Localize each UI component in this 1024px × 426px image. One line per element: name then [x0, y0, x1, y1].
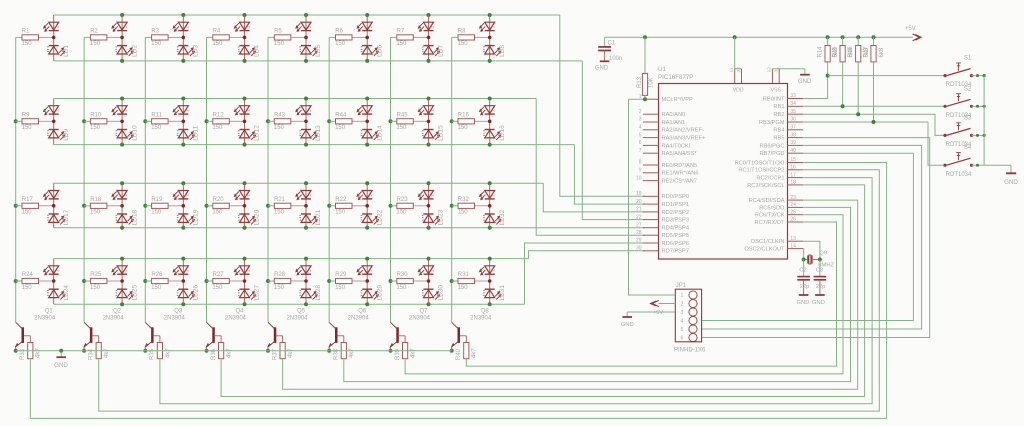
resistor R31	[452, 278, 490, 283]
label Q3	[174, 308, 183, 314]
junction switch pin	[976, 74, 979, 77]
label pin number 35	[790, 109, 796, 115]
svg-text:17: 17	[790, 172, 796, 178]
svg-text:4k7: 4k7	[36, 348, 42, 358]
wire +5V rail	[605, 36, 913, 38]
label R39 value 4k7	[411, 348, 417, 358]
label LD28	[315, 285, 322, 301]
wire r3b to RD4	[643, 227, 645, 229]
label S3	[964, 115, 972, 121]
svg-text:2: 2	[308, 26, 312, 28]
junction	[304, 143, 308, 147]
label R38 value 4k7	[349, 348, 355, 358]
label R32 value 150	[458, 210, 469, 216]
LED LD5	[296, 15, 318, 61]
label LD17	[63, 209, 70, 225]
svg-text:LD29: LD29	[376, 285, 383, 301]
label pin number 28	[636, 230, 642, 236]
label R30 name	[397, 272, 409, 278]
wire base R34 to RC1	[99, 170, 880, 411]
label S2	[964, 86, 972, 92]
svg-text:LD9: LD9	[63, 128, 70, 140]
svg-text:4k7: 4k7	[104, 348, 110, 358]
junction	[389, 119, 393, 123]
svg-text:GND: GND	[595, 65, 609, 71]
label R18 name	[90, 197, 102, 203]
svg-text:RB4: RB4	[773, 128, 784, 134]
label pin name RD5/PSP5	[662, 233, 690, 239]
label pin 32	[736, 67, 742, 73]
wire column 8 line	[451, 37, 453, 322]
pin 15 RC0/T1OSO/T1CKI	[788, 162, 804, 164]
resistor R35	[157, 343, 162, 359]
wire base R40 to RC7	[466, 222, 836, 366]
label pin name RC4/SDI/SDA	[749, 198, 785, 204]
label R9 name	[22, 112, 30, 118]
label pin name RD0/PSP0	[662, 194, 690, 200]
svg-text:2: 2	[431, 26, 435, 28]
pin 10 RE2/CS*/AN7	[643, 180, 659, 182]
junction	[181, 97, 185, 101]
label LD19	[193, 209, 200, 225]
label R23 name	[397, 197, 409, 203]
crystal Q9	[804, 255, 820, 264]
label pin number 33	[790, 93, 796, 99]
label JP1 value PINHD-1X6	[674, 347, 706, 353]
LED LD10	[112, 99, 134, 145]
label R10 value 150	[90, 125, 101, 131]
junction	[365, 181, 369, 185]
label pin name RE0/RD*/AN5	[662, 163, 698, 169]
wire base R36 to RC3	[221, 185, 865, 397]
label Q7	[419, 308, 428, 314]
wire JP1-2 to +5V	[658, 303, 675, 305]
LED LD20	[234, 183, 256, 227]
label Q6 value 2N3904	[348, 315, 370, 321]
svg-text:2: 2	[431, 270, 435, 272]
junction emitter	[266, 349, 270, 353]
label pin number 3	[639, 117, 642, 123]
wire C1 to rail	[604, 37, 606, 46]
label LD29	[376, 285, 383, 301]
pin 17 RC2/CCP1	[788, 177, 804, 179]
label C3	[816, 267, 823, 273]
resistor R5	[268, 35, 306, 40]
svg-text:1: 1	[639, 94, 642, 100]
svg-text:LD6: LD6	[376, 45, 383, 57]
resistor R23	[391, 203, 429, 208]
label R5 value 150	[274, 41, 285, 47]
label R22 name	[335, 197, 347, 203]
svg-text:9: 9	[639, 168, 642, 174]
label LD9	[63, 128, 70, 140]
svg-text:RD0/PSP0: RD0/PSP0	[662, 194, 690, 200]
label LD23	[438, 209, 445, 225]
junction	[427, 226, 431, 230]
junction crystal left	[802, 258, 806, 262]
pin 36 RB3/PGM	[788, 121, 804, 123]
svg-text:2N3904: 2N3904	[34, 315, 56, 321]
svg-text:6: 6	[639, 140, 642, 146]
switch S2 RDT1034	[943, 94, 984, 108]
label LD3	[193, 45, 200, 57]
resistor R21	[268, 203, 306, 208]
label LD13	[315, 125, 322, 141]
resistor R36	[219, 343, 224, 359]
svg-text:2N3904: 2N3904	[286, 315, 308, 321]
LED LD19	[173, 183, 195, 227]
label JP1 pin 6	[681, 336, 684, 342]
wire row4 bottom rail	[54, 303, 525, 305]
pin 23 RC4/SDI/SDA	[788, 199, 804, 201]
label R8 name	[458, 29, 466, 35]
transistor Q3 2N3904	[145, 322, 160, 350]
svg-text:GND: GND	[54, 362, 68, 369]
wire JP1-1 to MCLR	[629, 99, 676, 295]
label R2 value 150	[90, 41, 101, 47]
resistor R33	[28, 343, 33, 359]
junction	[427, 181, 431, 185]
label pin name RD3/PSP3	[662, 218, 690, 224]
wire to S4	[928, 122, 944, 165]
resistor R29	[329, 278, 367, 283]
svg-text:R10: R10	[90, 112, 102, 118]
svg-text:R4: R4	[213, 29, 221, 35]
junction	[327, 204, 331, 208]
svg-text:R13: R13	[637, 76, 643, 88]
junction GND rail	[59, 349, 63, 353]
label R45 name	[397, 112, 409, 118]
label pin number 1	[639, 94, 642, 100]
label pin name RA5/AN4/SS*	[662, 151, 698, 157]
svg-text:RB6/PGC: RB6/PGC	[760, 143, 785, 149]
resistor R28	[268, 278, 306, 283]
svg-text:GND: GND	[797, 300, 810, 306]
pin 16 RC1/T1OSI/CCP2	[788, 169, 804, 171]
label pin number 40	[790, 148, 796, 154]
op-amp U1 PIC16F877P body	[659, 84, 788, 260]
svg-text:4k7: 4k7	[411, 348, 417, 358]
resistor R34	[96, 343, 101, 359]
resistor R45	[391, 119, 429, 124]
junction emitter	[143, 349, 147, 353]
label pin number 21	[636, 207, 642, 213]
resistor R6	[329, 35, 367, 40]
svg-text:RD7/PSP7: RD7/PSP7	[662, 249, 690, 255]
svg-text:31: 31	[774, 67, 780, 73]
junction	[427, 97, 431, 101]
LED LD32	[479, 183, 501, 227]
svg-text:150: 150	[90, 125, 101, 131]
wire VSS to GND	[772, 69, 805, 75]
capacitor C1	[598, 47, 611, 61]
resistor R13	[642, 37, 647, 99]
label pin number 36	[790, 117, 796, 123]
svg-text:R33: R33	[20, 348, 26, 360]
LED LD21	[296, 183, 318, 227]
LED LD31	[479, 259, 501, 305]
svg-text:R8: R8	[458, 29, 466, 35]
svg-text:40: 40	[790, 148, 796, 154]
label pin name RB7/PGD	[760, 151, 785, 157]
svg-text:R22: R22	[335, 197, 347, 203]
svg-text:LD31: LD31	[499, 285, 506, 301]
label R36 name	[211, 348, 217, 360]
pin 13 OSC1/CLKIN	[788, 240, 804, 242]
svg-text:150: 150	[212, 210, 223, 216]
resistor R1	[16, 35, 54, 40]
resistor R43	[268, 119, 306, 124]
transistor Q5 2N3904	[267, 322, 282, 350]
junction crystal right	[818, 258, 822, 262]
svg-text:LD13: LD13	[315, 125, 322, 141]
svg-text:2: 2	[56, 194, 60, 196]
label pin number 18	[790, 180, 796, 186]
resistor R32	[452, 203, 490, 208]
svg-text:150: 150	[212, 41, 223, 47]
svg-text:150: 150	[335, 41, 346, 47]
label pin number 24	[790, 202, 796, 208]
junction	[181, 143, 185, 147]
svg-text:2: 2	[124, 109, 128, 111]
svg-text:LD27: LD27	[254, 285, 261, 301]
junction emitter	[327, 349, 331, 353]
label S4	[964, 145, 972, 151]
label pin name RB5	[773, 136, 784, 142]
svg-text:R7: R7	[397, 29, 405, 35]
label LD10	[131, 125, 138, 141]
svg-text:R25: R25	[90, 272, 102, 278]
svg-text:2N3904: 2N3904	[225, 315, 247, 321]
svg-text:2: 2	[492, 194, 496, 196]
label LD20	[254, 209, 261, 225]
wire JP1-3 to GND	[627, 312, 675, 317]
label pin name RE2/CS*/AN7	[662, 179, 697, 185]
label Q8	[481, 308, 490, 314]
label LD14	[376, 125, 383, 141]
resistor R24	[16, 278, 54, 283]
label S3 value RDT1034	[946, 142, 972, 148]
svg-text:R28: R28	[274, 272, 286, 278]
svg-text:35: 35	[790, 109, 796, 115]
LED LD2	[112, 15, 134, 61]
label +5V	[905, 26, 916, 32]
junction	[427, 143, 431, 147]
LED LD26	[173, 259, 195, 305]
pin 27 RD4/PSP4	[643, 227, 659, 229]
svg-text:RB5: RB5	[773, 136, 784, 142]
label pin number 30	[636, 246, 642, 252]
label pin name RB2	[773, 112, 784, 118]
svg-text:150: 150	[212, 285, 223, 291]
label JP1	[676, 283, 687, 289]
svg-text:24: 24	[790, 202, 796, 208]
junction	[14, 279, 18, 283]
label R32 name	[458, 197, 470, 203]
label R22 value 150	[335, 210, 346, 216]
svg-text:R11: R11	[151, 112, 162, 118]
pin 18 RC3/SCK/SCL	[788, 184, 804, 186]
svg-text:R18: R18	[90, 197, 102, 203]
svg-text:13: 13	[790, 236, 796, 242]
svg-text:LD1: LD1	[63, 45, 70, 57]
svg-text:150: 150	[396, 125, 407, 131]
svg-text:34: 34	[790, 101, 796, 107]
svg-text:2: 2	[308, 110, 312, 112]
svg-text:R32: R32	[458, 197, 470, 203]
svg-text:2N3904: 2N3904	[164, 315, 186, 321]
label pin number 34	[790, 101, 796, 107]
LED LD7	[418, 15, 440, 61]
junction	[427, 13, 431, 17]
svg-text:S3: S3	[964, 115, 972, 121]
pin 20 RD1/PSP1	[643, 203, 659, 205]
label pin 12	[767, 67, 773, 73]
label R43 name	[274, 112, 286, 118]
svg-text:2: 2	[247, 270, 251, 272]
label LD22	[376, 209, 383, 225]
svg-text:LD26: LD26	[193, 285, 200, 301]
junction switch pin	[976, 164, 979, 167]
resistor R22	[329, 203, 367, 208]
svg-text:LD19: LD19	[193, 209, 200, 225]
svg-text:150: 150	[396, 41, 407, 47]
svg-text:3: 3	[639, 117, 642, 123]
junction	[488, 97, 492, 101]
wire column 3 line	[144, 37, 146, 322]
resistor R27	[207, 278, 245, 283]
svg-text:RC1/T1OSI/CCP2: RC1/T1OSI/CCP2	[738, 168, 784, 174]
resistor R4	[207, 35, 245, 40]
svg-text:R26: R26	[151, 272, 163, 278]
junction	[365, 257, 369, 261]
svg-text:RE1/WR*/AN6: RE1/WR*/AN6	[662, 171, 699, 177]
label pin name MCLR*/VPP	[662, 97, 693, 103]
label LD25	[131, 285, 138, 301]
label R27 value 150	[212, 285, 223, 291]
svg-text:2: 2	[247, 110, 251, 112]
label pin number 37	[790, 125, 796, 131]
svg-text:RC2/CCP1: RC2/CCP1	[756, 176, 784, 182]
junction	[488, 143, 492, 147]
resistor R11	[145, 119, 183, 124]
svg-text:30: 30	[636, 246, 642, 252]
junction	[266, 204, 270, 208]
label R24 name	[22, 272, 34, 278]
svg-text:38: 38	[790, 132, 796, 138]
label C2 value 22p	[800, 284, 810, 290]
svg-text:2N3904: 2N3904	[103, 315, 125, 321]
wire RB3 net	[803, 62, 928, 122]
label pin name OSC1/CLKIN	[751, 239, 785, 245]
LED LD14	[357, 99, 379, 145]
svg-text:150: 150	[458, 285, 469, 291]
junction	[488, 302, 492, 306]
label pin 11	[729, 67, 735, 72]
wire r2t to RD5	[536, 99, 645, 236]
junction	[327, 119, 331, 123]
junction R13 at rail	[643, 35, 647, 39]
wire base R38 to RC5	[344, 207, 851, 381]
label pin name RD1/PSP1	[662, 202, 690, 208]
junction	[120, 226, 124, 230]
LED LD9	[43, 99, 65, 145]
svg-text:Q8: Q8	[481, 308, 490, 314]
label LD27	[254, 285, 261, 301]
svg-text:4k7: 4k7	[349, 348, 355, 358]
svg-text:2: 2	[247, 194, 251, 196]
LED LD16	[479, 99, 501, 145]
ground GND at JP1	[621, 317, 634, 328]
svg-text:2: 2	[185, 194, 189, 196]
junction	[243, 181, 247, 185]
junction R15 at rail	[841, 35, 845, 39]
junction RB3/R17	[872, 120, 876, 124]
svg-text:2: 2	[369, 26, 373, 28]
svg-text:2: 2	[185, 110, 189, 112]
svg-text:Q5: Q5	[297, 308, 306, 314]
junction	[450, 119, 454, 123]
junction	[120, 59, 124, 63]
junction VDD at rail	[733, 35, 737, 39]
svg-text:R44: R44	[335, 112, 347, 118]
label pin number 19	[636, 191, 642, 197]
LED LD22	[357, 183, 379, 227]
junction	[365, 97, 369, 101]
label Q7 value 2N3904	[409, 315, 431, 321]
svg-text:2: 2	[492, 110, 496, 112]
wire RB7/PGD to JP1-4	[702, 153, 914, 320]
pin 21 RD2/PSP2	[643, 211, 659, 213]
svg-text:2: 2	[681, 302, 684, 308]
wire base R39 to RC6	[405, 215, 843, 374]
label R19 value 150	[151, 210, 162, 216]
label pin name RA2/AN2/VREF-	[662, 128, 704, 134]
label Q9 value 4MHZ	[818, 262, 834, 268]
LED LD13	[296, 99, 318, 145]
svg-text:R16: R16	[458, 112, 470, 118]
label R18 value 150	[90, 210, 101, 216]
ground GND at C2	[797, 295, 810, 306]
ground GND at emitter rail	[54, 351, 68, 369]
svg-text:25: 25	[790, 209, 796, 215]
label R37 name	[272, 348, 278, 360]
junction	[243, 302, 247, 306]
resistor R16	[452, 119, 490, 124]
pin 14 OSC2/CLKOUT	[788, 248, 804, 250]
label R31 value 150	[458, 285, 469, 291]
label pin number 7	[639, 148, 642, 154]
label pin name RD4/PSP4	[662, 226, 690, 232]
label R17 value 6k8	[879, 47, 885, 57]
svg-text:GND: GND	[1004, 179, 1018, 186]
label R11 value 150	[151, 125, 162, 131]
label JP1 pin 1	[681, 293, 684, 299]
junction RB2/R16	[856, 112, 860, 116]
svg-text:R40: R40	[456, 348, 462, 360]
resistor R10	[84, 119, 122, 124]
svg-text:RC5/SDO: RC5/SDO	[759, 205, 785, 211]
junction	[304, 59, 308, 63]
label +5V at JP1	[653, 310, 664, 316]
label R2 name	[90, 29, 98, 35]
LED LD17	[43, 183, 65, 227]
connector JP1 body	[675, 289, 701, 342]
svg-text:R29: R29	[335, 272, 347, 278]
svg-text:150: 150	[396, 210, 407, 216]
svg-text:150: 150	[22, 210, 33, 216]
junction switch pin	[976, 105, 979, 108]
